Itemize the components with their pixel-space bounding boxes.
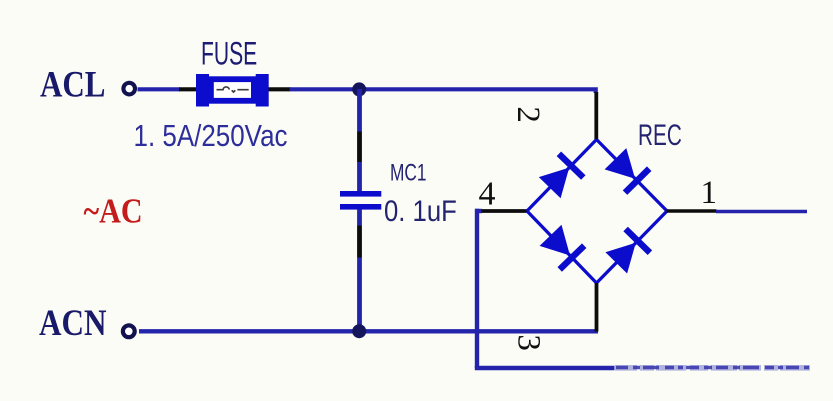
svg-text:0. 1uF: 0. 1uF [384,195,457,228]
wire black lead into bridge pin 2 [594,92,598,140]
diode D2 (2-to-1 arm) [605,148,650,193]
svg-text:FUSE: FUSE [201,36,257,72]
wire below cap black remnant [357,226,362,258]
svg-text:2: 2 [510,106,546,123]
wire DC+ output blue [716,210,807,214]
svg-text:~AC: ~AC [84,192,143,231]
wire cap to bottom junction blue [357,258,362,332]
wire blue stub pin4 [475,209,482,213]
svg-text:MC1: MC1 [390,159,427,186]
svg-text:ACN: ACN [39,302,107,343]
fuse F1 symbol [196,74,269,107]
wire top blue to bridge corner [290,89,596,93]
diode D1 (4-to-2 arm) [539,154,584,199]
wire below cap blue [357,210,362,226]
junction node at fuse/cap [352,82,366,96]
svg-text:3: 3 [511,334,547,351]
junction node at cap bottom [352,324,366,338]
svg-text:4: 4 [479,176,496,213]
svg-text:1. 5A/250Vac: 1. 5A/250Vac [134,118,288,153]
wire black fuse to blue [269,87,291,91]
diode D4 (3-to-1 arm) [605,229,650,274]
svg-text:ACL: ACL [40,65,106,106]
wire black lead bridge pin 1 [667,209,717,213]
wire ACL blue segment [138,87,181,91]
wire ACN bottom blue [139,329,598,333]
wire ACL black segment to fuse [179,87,197,91]
wire cap upper black remnant [357,132,362,163]
svg-text:REC: REC [638,119,682,152]
wire watermark dashed segment [615,365,810,371]
terminal circle ACL [123,83,135,95]
wire cap to top plate blue [357,162,362,192]
capacitor MC1 bottom plate [340,204,381,210]
terminal circle ACN [123,325,135,337]
wire black lead into bridge pin 4 [482,209,529,213]
wire cap upper blue [357,89,362,132]
diode D3 (4-to-3 arm) [540,225,585,270]
svg-text:1: 1 [701,175,718,211]
wire pin4 vertical blue [475,209,479,368]
capacitor MC1 top plate [340,191,381,197]
bridge rectifier REC diamond edges [527,140,667,284]
wire black lead bridge pin 3 [595,283,599,332]
wire DC output bottom blue [475,366,615,370]
